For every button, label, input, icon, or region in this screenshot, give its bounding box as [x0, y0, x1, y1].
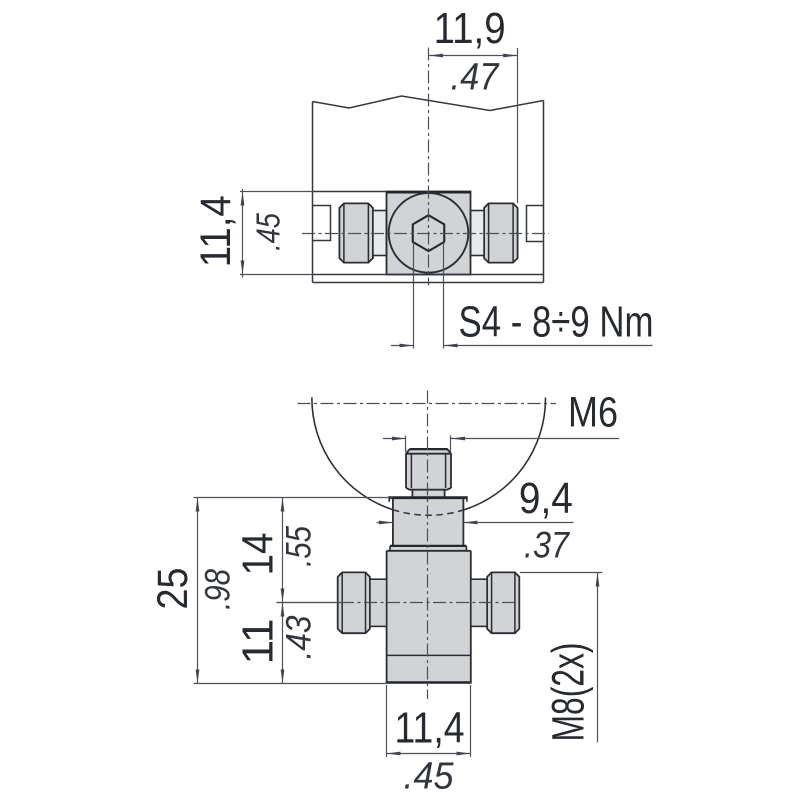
central circle (top view): [389, 193, 469, 273]
dim 11,4 bottom arrows: [387, 752, 471, 756]
svg-text:.37: .37: [524, 524, 570, 565]
svg-text:.45: .45: [404, 756, 455, 798]
svg-text:9,4: 9,4: [519, 474, 573, 523]
dim M6 arrows: [392, 437, 465, 441]
dim S4 lines: [391, 345, 653, 347]
dim 11,4 arrows (top view): [241, 192, 245, 275]
dim 11,9 line: [429, 55, 517, 57]
collar top edge thick: [389, 496, 468, 499]
hex socket (top view): [413, 215, 445, 251]
screw thread fill: [406, 449, 451, 489]
centerline vertical (bottom view): [427, 391, 429, 700]
block outline: [387, 192, 471, 275]
dim 11,4 bottom extensions: [387, 685, 471, 757]
left arm thread (bottom view): [338, 572, 370, 633]
dim 9,4 arrows: [379, 521, 478, 525]
centerline vertical (top view): [428, 48, 430, 286]
dim 25 arrows: [196, 498, 200, 684]
profile slot bottom line: [313, 274, 544, 276]
dim 14/11 arrows: [281, 498, 285, 684]
dim 11,4 bottom line: [387, 753, 471, 755]
right arm neck: [471, 579, 487, 626]
big arc left solid: [312, 397, 393, 509]
arm centerline solid extension: [277, 602, 342, 604]
dim M8 line: [597, 573, 599, 743]
collar fill: [393, 497, 464, 545]
body bottom edge thick: [387, 681, 471, 684]
dim 14/11 line: [282, 498, 284, 684]
left stud neck: [373, 211, 387, 256]
dim 11,9 right extension: [517, 48, 519, 203]
dim 11,9 arrows: [429, 54, 517, 58]
profile left lip: [313, 206, 331, 241]
svg-text:25: 25: [149, 568, 197, 610]
collar top corner ticks: [389, 496, 467, 502]
profile bottom outer line: [313, 282, 544, 284]
band sides: [390, 546, 466, 551]
arm centerline dash-dot: [341, 602, 516, 604]
block top edge thick: [387, 191, 471, 194]
dim S4 extensions: [414, 243, 444, 349]
dim S4 arrows: [400, 344, 458, 348]
big arc right solid: [463, 398, 545, 511]
profile left wall: [312, 102, 314, 283]
screw thread crest lines: [411, 454, 445, 488]
dim 11,4 line (top view): [242, 189, 244, 278]
svg-text:.43: .43: [280, 615, 319, 659]
dim M6 extensions: [406, 436, 451, 453]
svg-text:.98: .98: [199, 569, 238, 610]
svg-text:S4 - 8÷9 Nm: S4 - 8÷9 Nm: [459, 297, 654, 346]
profile slot top line: [313, 191, 387, 193]
left stud thread crest lines: [344, 204, 369, 263]
profile right lip: [527, 206, 544, 242]
left arm neck: [370, 579, 387, 626]
svg-text:11: 11: [233, 619, 282, 665]
left stud thread (top view): [339, 203, 373, 262]
left arm thread crest lines: [342, 573, 365, 633]
svg-text:.47: .47: [451, 57, 501, 99]
dim 9,4 lines: [377, 522, 574, 524]
dim 25 line: [197, 498, 199, 684]
screw outline: [406, 449, 451, 497]
fastener block body (top view): [387, 192, 471, 275]
screw neck fill: [412, 489, 444, 498]
dim 14/11 middle extension: [277, 602, 342, 604]
svg-text:11,9: 11,9: [434, 4, 506, 53]
profile right wall: [543, 101, 545, 283]
dashed arc through collar: [393, 510, 464, 516]
centerline horizontal (top view): [302, 233, 549, 235]
dim M8 extension: [520, 572, 603, 574]
dim 25 extensions: [194, 498, 393, 684]
dim M8 arrow: [596, 573, 600, 587]
collar sides: [393, 499, 464, 545]
right stud thread crest lines: [489, 204, 513, 263]
band fill: [390, 545, 466, 551]
svg-text:M6: M6: [568, 388, 618, 436]
body fill: [387, 551, 471, 684]
dim 11,4 extensions (top view): [240, 192, 313, 275]
svg-text:11,4: 11,4: [395, 704, 465, 753]
right arm thread crest lines: [492, 573, 515, 633]
right stud thread (top view): [484, 203, 517, 262]
svg-text:M8(2x): M8(2x): [543, 643, 594, 742]
screw top edge thick: [410, 448, 448, 450]
body outline: [387, 551, 471, 684]
svg-text:11,4: 11,4: [192, 195, 240, 267]
svg-text:14: 14: [233, 533, 282, 576]
body separation line: [387, 654, 471, 656]
svg-text:.55: .55: [280, 526, 319, 567]
centerline horizontal (bottom view): [298, 403, 557, 405]
svg-text:.45: .45: [250, 212, 287, 251]
profile zigzag break line: [313, 96, 544, 111]
right arm thread (bottom view): [487, 572, 519, 633]
dim M6 lines: [383, 438, 619, 440]
band top edge: [390, 545, 466, 547]
right stud neck: [471, 211, 485, 256]
